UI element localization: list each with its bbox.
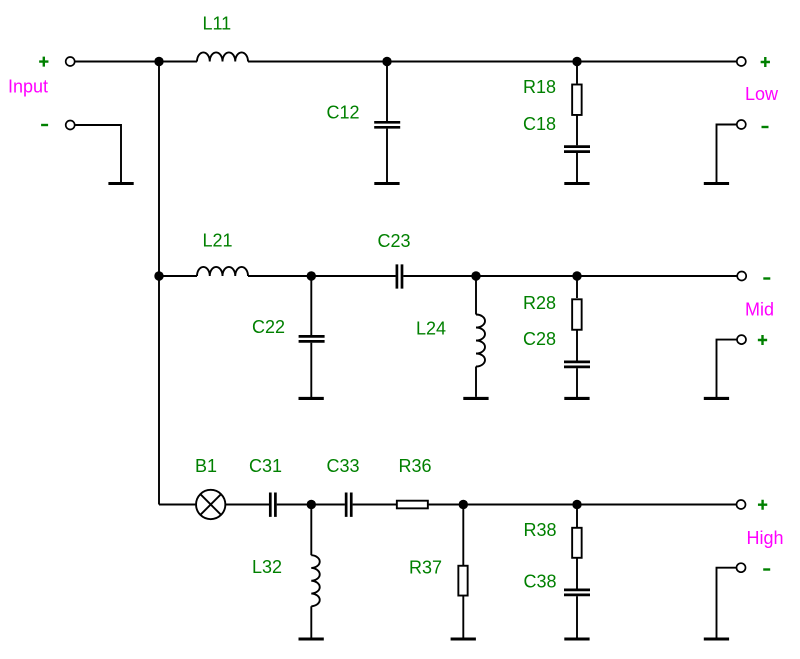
inductor L24	[476, 315, 485, 367]
wire C22 to ground	[310, 343, 312, 397]
svg-text:R38: R38	[524, 520, 557, 540]
capacitor C28	[564, 362, 590, 367]
wire node A to L11	[159, 61, 197, 63]
wire node G to R28	[576, 276, 578, 298]
wire input- to ground	[75, 125, 121, 182]
terminal Low +	[737, 57, 746, 66]
label High - polarity	[763, 568, 770, 570]
node D bus junction row2	[154, 271, 163, 280]
node C R18 top junction	[572, 57, 581, 66]
capacitor C22	[299, 336, 325, 341]
svg-text:L11: L11	[203, 13, 232, 33]
wire Low- to ground	[717, 125, 737, 183]
capacitor C38	[564, 590, 590, 595]
ground C38	[564, 637, 589, 640]
wire Mid+ to ground	[717, 340, 738, 397]
svg-text:C38: C38	[524, 572, 557, 592]
node G R28 top junction	[572, 271, 581, 280]
label Input + polarity	[39, 57, 48, 67]
wire node J to High+ terminal	[577, 504, 737, 506]
svg-text:C28: C28	[523, 329, 556, 349]
label High + polarity	[758, 500, 767, 510]
ground L24	[463, 397, 488, 400]
wire High- to ground	[717, 568, 737, 638]
svg-text:C22: C22	[252, 317, 285, 337]
lamp B1	[196, 490, 225, 519]
label Mid + polarity	[758, 335, 767, 345]
terminal Mid +	[737, 335, 746, 344]
wire node F to node G	[476, 275, 577, 277]
svg-text:B1: B1	[195, 456, 217, 476]
wire C33 to R36	[353, 504, 397, 506]
terminal Input +	[66, 57, 75, 66]
ground C28	[564, 397, 589, 400]
node E C22 top junction	[307, 271, 316, 280]
wire node I to R37	[462, 505, 464, 566]
node H L32 top junction	[307, 500, 316, 509]
svg-text:L21: L21	[203, 230, 233, 250]
wire R38 to C38	[576, 558, 578, 589]
ground R37	[451, 637, 476, 640]
wire node C to R18	[576, 62, 578, 84]
label Low - polarity	[762, 126, 769, 128]
wire input+ to node A	[75, 61, 159, 63]
inductor L21	[197, 267, 248, 276]
wire C38 to ground	[576, 596, 578, 637]
svg-text:C23: C23	[378, 231, 411, 251]
wire C12 to ground	[386, 129, 388, 182]
wire C28 to ground	[576, 368, 578, 397]
wire C23 to node F	[403, 275, 476, 277]
ground Mid +	[704, 397, 729, 400]
terminal High -	[737, 563, 746, 572]
terminal Low -	[737, 120, 746, 129]
svg-text:C12: C12	[327, 102, 360, 122]
ground input -	[108, 182, 133, 185]
node A bus junction row1	[154, 57, 163, 66]
wire node D to L21	[159, 275, 197, 277]
wire bus vertical node A to row3	[158, 62, 160, 505]
label Low + polarity	[761, 57, 770, 67]
svg-text:Mid: Mid	[745, 300, 774, 320]
ground C18	[564, 182, 589, 185]
ground L32	[299, 637, 324, 640]
ground C22	[299, 397, 324, 400]
wire node I to node J	[463, 504, 577, 506]
wire B1 to C31	[226, 504, 269, 506]
ground High -	[704, 637, 729, 640]
label Input - polarity	[41, 124, 48, 126]
svg-text:Input: Input	[8, 77, 48, 97]
inductor L32	[311, 555, 319, 606]
label Mid - polarity	[763, 277, 770, 279]
wire R36 to node I	[428, 504, 463, 506]
inductor L11	[197, 52, 248, 61]
wire node G to Mid- terminal	[577, 275, 737, 277]
svg-text:R36: R36	[399, 456, 432, 476]
wire R18 to C18	[576, 115, 578, 145]
resistor R37	[458, 566, 467, 596]
wire L24 to ground	[475, 367, 477, 397]
wire R28 to C28	[576, 330, 578, 361]
svg-text:C31: C31	[249, 456, 282, 476]
capacitor C33	[346, 493, 351, 517]
svg-text:Low: Low	[745, 84, 779, 104]
wire C31 to node H	[277, 504, 312, 506]
terminal Input -	[66, 121, 75, 130]
capacitor C12	[374, 122, 400, 127]
svg-text:C33: C33	[327, 456, 360, 476]
wire bus to lamp B1	[159, 504, 196, 506]
svg-text:R18: R18	[523, 77, 556, 97]
resistor R38	[572, 528, 582, 558]
wire node H to C33	[311, 504, 345, 506]
wire node B to C12	[386, 62, 388, 122]
resistor R36	[397, 501, 428, 509]
svg-text:R37: R37	[409, 558, 442, 578]
wire C18 to ground	[576, 153, 578, 182]
capacitor C31	[270, 493, 275, 517]
ground C12	[374, 182, 399, 185]
wire L32 to ground	[310, 606, 312, 637]
terminal High +	[737, 500, 746, 509]
wire L11 to node B	[248, 61, 387, 63]
wire node C to Low+ terminal	[577, 61, 737, 63]
wire node E to C22	[310, 276, 312, 335]
terminal Mid -	[737, 272, 746, 281]
node I R37 top junction	[459, 500, 468, 509]
svg-text:L24: L24	[416, 318, 446, 338]
wire node F to L24	[475, 276, 477, 315]
svg-text:High: High	[747, 528, 784, 548]
capacitor C23	[397, 264, 402, 288]
node J R38 top junction	[572, 500, 581, 509]
svg-text:R28: R28	[523, 293, 556, 313]
wire node E to C23	[311, 275, 395, 277]
wire node J to R38	[576, 505, 578, 528]
wire R37 to ground	[462, 596, 464, 638]
node B C12 top junction	[382, 57, 391, 66]
capacitor C18	[564, 147, 590, 152]
svg-text:C18: C18	[523, 114, 556, 134]
wire L21 to node E	[248, 275, 311, 277]
wire node H to L32	[310, 505, 312, 556]
wire node B to node C	[387, 61, 577, 63]
svg-text:L32: L32	[252, 557, 282, 577]
ground Low -	[704, 182, 729, 185]
resistor R28	[572, 299, 582, 329]
resistor R18	[572, 85, 582, 115]
node F L24 top junction	[471, 271, 480, 280]
